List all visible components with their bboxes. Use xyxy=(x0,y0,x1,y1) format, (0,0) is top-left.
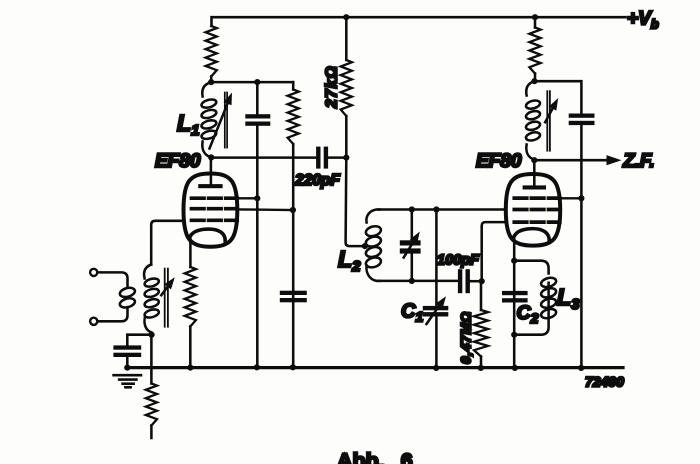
cathode lead V2 xyxy=(513,236,516,261)
resistor anode supply right xyxy=(534,17,537,27)
capacitor screen-grid bypass left xyxy=(256,82,259,114)
wire g1 riser xyxy=(482,222,506,281)
capacitor C2 xyxy=(502,291,528,295)
wire input bottom xyxy=(97,307,127,321)
wire +Vb supply rail xyxy=(212,17,626,26)
grid g3 V2 xyxy=(514,196,560,200)
node trimmer top xyxy=(409,206,415,212)
node 27k to rail xyxy=(343,14,349,20)
resistor 27k xyxy=(345,17,348,60)
anode lead V2 xyxy=(533,160,536,187)
node secondary bottom xyxy=(149,332,155,338)
inductor L3 xyxy=(514,261,548,274)
node cathode right xyxy=(511,258,517,264)
resistor screen dropper left xyxy=(288,90,299,145)
tuning arrow right coil xyxy=(545,109,552,123)
node g3 left xyxy=(254,195,260,201)
wire screen resistor top xyxy=(292,82,295,89)
anode bar V1 xyxy=(198,184,222,188)
anode bar V2 xyxy=(523,185,546,189)
wire L2 bottom line xyxy=(378,280,458,283)
capacitor 100pF xyxy=(458,269,462,293)
svg-text:+Vb: +Vb xyxy=(627,9,659,32)
wire to node B xyxy=(534,74,537,82)
wire ground rail xyxy=(127,366,623,369)
terminal input top xyxy=(90,269,97,276)
node rail 0.47M xyxy=(478,365,484,371)
cathode V1 xyxy=(190,229,225,241)
resistor cathode left xyxy=(185,267,196,327)
wire node A to screen resistor xyxy=(211,81,293,84)
inductor input secondary xyxy=(144,265,151,279)
inductor L1 xyxy=(202,82,211,96)
wire screen resistor to g2 node xyxy=(292,144,295,368)
svg-text:220pF: 220pF xyxy=(294,172,340,189)
node C2 bottom xyxy=(511,332,517,338)
wire cathode to rail xyxy=(513,261,516,368)
wire node B to bypass cap xyxy=(534,81,581,113)
node rail C1 xyxy=(433,365,439,371)
arrow Z.F. xyxy=(607,155,622,165)
node anode right xyxy=(531,157,537,163)
svg-text:EF80: EF80 xyxy=(155,151,201,172)
wire g1 to input coil xyxy=(151,221,184,265)
svg-text:27kΩ: 27kΩ xyxy=(324,65,341,109)
wire 220pF to 27k node xyxy=(327,156,347,159)
wire cathode resistor to rail xyxy=(189,327,192,368)
svg-text:L1: L1 xyxy=(177,110,199,139)
capacitor bypass right xyxy=(569,114,595,118)
node rail right-bypass xyxy=(578,365,584,371)
grid g1 V2 xyxy=(514,220,560,224)
inductor L right xyxy=(526,81,534,95)
node rail cathode-R xyxy=(187,365,193,371)
node 27k / 220pF xyxy=(343,155,349,161)
node B top of right coil xyxy=(531,78,537,84)
core bar right xyxy=(546,91,548,151)
svg-text:Z.F.: Z.F. xyxy=(622,151,655,172)
capacitor screen bypass to ground xyxy=(280,291,307,295)
node trimmer bottom xyxy=(409,278,415,284)
wire 100pF to g1 node xyxy=(469,280,482,283)
node rail C2-line xyxy=(512,365,518,371)
grid g1 V1 xyxy=(192,218,238,222)
cathode V2 xyxy=(514,229,549,241)
capacitor L2 trimmer xyxy=(411,210,414,241)
wire cap to rail xyxy=(126,357,129,368)
svg-text:72490: 72490 xyxy=(585,374,624,390)
node rail g3-line xyxy=(254,364,260,370)
node g1 right xyxy=(479,278,485,284)
wire secondary bottom to cap xyxy=(127,333,151,336)
node g2 left xyxy=(290,207,296,213)
node C1 top xyxy=(433,206,439,212)
node right resistor to rail xyxy=(532,14,538,20)
node A top of L1 xyxy=(208,79,214,85)
node rail screen-cap xyxy=(290,364,296,370)
capacitor C1 line xyxy=(435,210,438,306)
svg-text:0,47MΩ: 0,47MΩ xyxy=(459,311,474,364)
grid g3 V1 xyxy=(192,196,238,200)
resistor 0.47M grid leak xyxy=(480,281,483,310)
resistor AGC return xyxy=(150,335,153,384)
tuning arrow input xyxy=(161,287,167,295)
svg-text:Abb. 6: Abb. 6 xyxy=(337,449,413,464)
svg-text:L3: L3 xyxy=(557,284,580,313)
inductor L2 xyxy=(366,210,380,223)
tuning arrow L1 xyxy=(210,104,228,149)
tube EF80 V2 envelope xyxy=(506,174,560,246)
grid g2 V1 xyxy=(192,207,238,211)
core bar input xyxy=(164,269,166,327)
wire bypass cap down xyxy=(580,125,583,367)
node g3 right xyxy=(578,195,584,201)
wire g3 line to ground rail xyxy=(256,198,259,367)
resistor R1 anode supply left xyxy=(206,26,217,77)
node anode left / L1 bottom xyxy=(208,154,214,160)
capacitor 220pF coupling xyxy=(316,147,320,169)
wire bypass cap to g3 xyxy=(256,126,259,199)
wire R1 to node A xyxy=(210,77,213,83)
svg-text:EF80: EF80 xyxy=(476,151,522,172)
wire anode to 220pF xyxy=(211,156,317,159)
node bypass cap tap xyxy=(254,79,260,85)
wire Z.F. output xyxy=(534,159,607,162)
svg-text:C1: C1 xyxy=(401,301,423,325)
svg-text:L2: L2 xyxy=(338,246,361,275)
cathode lead V1 xyxy=(189,236,192,267)
ground xyxy=(114,375,141,387)
capacitor input ground bypass xyxy=(113,345,141,349)
inductor input primary xyxy=(119,286,136,298)
tuning arrow C1 xyxy=(427,306,440,324)
core bar L1 xyxy=(224,93,226,148)
wire 27k node to L2 tap xyxy=(346,116,365,246)
wire input top xyxy=(97,272,127,287)
node rail ground xyxy=(124,365,130,371)
wire L2 top line xyxy=(378,208,506,211)
anode lead V1 xyxy=(210,157,213,186)
svg-text:100pF: 100pF xyxy=(437,253,480,269)
tuning arrow L2 trimmer xyxy=(404,242,414,258)
svg-text:C2: C2 xyxy=(517,302,539,326)
tube EF80 V1 envelope xyxy=(184,174,238,247)
terminal input bottom xyxy=(90,318,97,325)
grid g2 V2 xyxy=(514,208,560,212)
node L2 tap xyxy=(362,243,368,249)
